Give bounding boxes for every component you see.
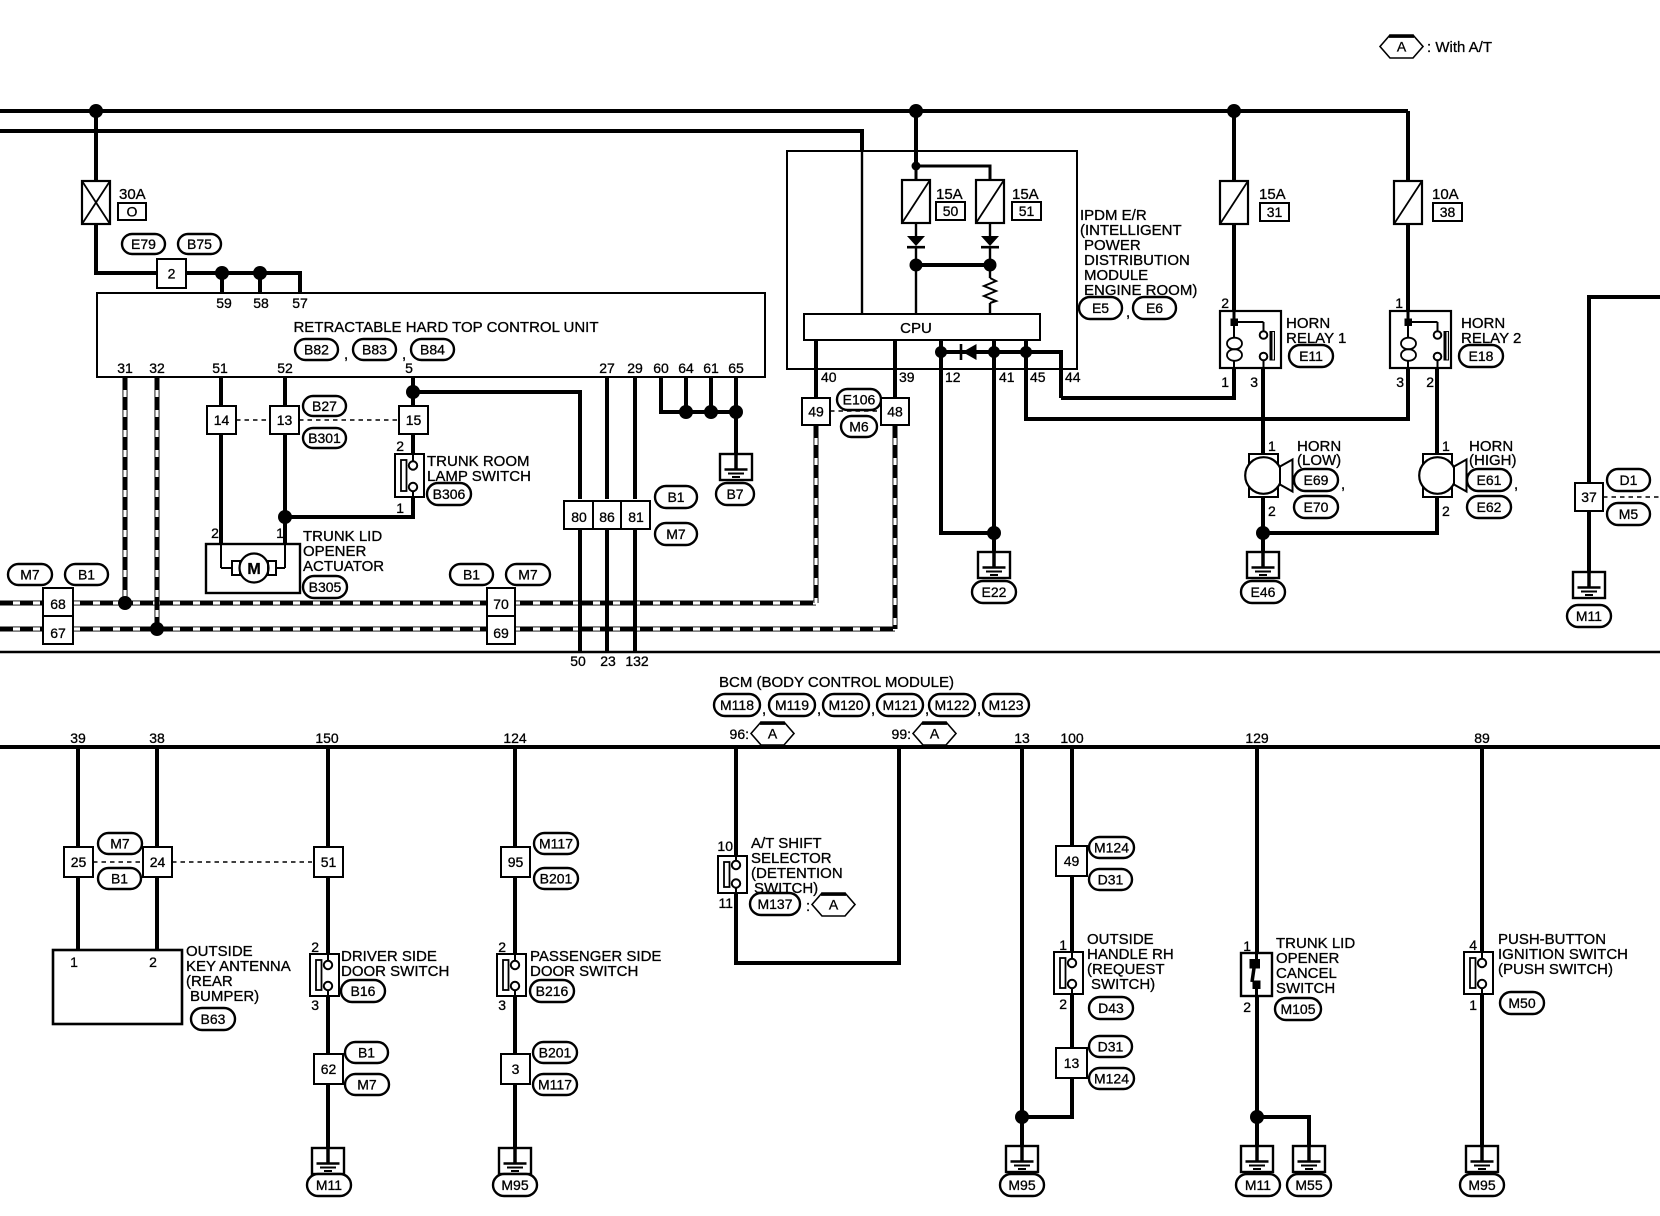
connector B75 xyxy=(178,234,221,254)
node junction pin45 xyxy=(1020,346,1032,358)
section separator line xyxy=(0,651,1660,653)
wire shielded pin 40 to box49 handled above xyxy=(814,425,819,603)
svg-text:59: 59 xyxy=(216,295,232,311)
svg-text:150: 150 xyxy=(315,730,339,746)
wire diode row xyxy=(941,350,1026,354)
wire horn low to ground E46 xyxy=(1261,497,1265,552)
connector M7 right of 81 xyxy=(655,523,697,545)
wire cpu pin 39 xyxy=(895,340,915,398)
diode D under fuse 51 xyxy=(981,236,999,247)
svg-text:CPU: CPU xyxy=(900,320,932,337)
wire BCM pin 38 xyxy=(155,748,159,950)
svg-text:M118: M118 xyxy=(720,697,754,713)
svg-text:39: 39 xyxy=(70,730,86,746)
svg-text:67: 67 xyxy=(50,625,66,641)
svg-text:2: 2 xyxy=(498,939,506,955)
svg-text:10A: 10A xyxy=(1432,186,1459,203)
wire fuse 50 to diode xyxy=(915,223,917,236)
wire 37 to ground M11 xyxy=(1587,511,1591,572)
wire detention switch to pin 99 xyxy=(736,748,899,963)
wire BCM pin 129 xyxy=(1255,748,1259,953)
svg-text:M11: M11 xyxy=(1245,1177,1271,1193)
wire cpu pin 45 xyxy=(1026,340,1046,385)
svg-text:27: 27 xyxy=(599,360,615,376)
connector B301 xyxy=(303,428,346,448)
connector M124 lower xyxy=(1089,1068,1134,1089)
svg-text:B16: B16 xyxy=(351,983,376,999)
connector D31 upper xyxy=(1089,869,1132,890)
wire pin 52 to actuator xyxy=(283,377,287,544)
svg-text:60: 60 xyxy=(653,360,669,376)
svg-text:3: 3 xyxy=(1396,374,1404,390)
svg-text:A: A xyxy=(1397,39,1407,55)
svg-text:D43: D43 xyxy=(1098,1000,1124,1016)
connector B1 door xyxy=(345,1042,388,1063)
wire bus1 to fuse 50 xyxy=(914,111,918,181)
svg-text:39: 39 xyxy=(899,369,915,385)
wire fuse 30A to connector 2 xyxy=(96,223,157,273)
connector M122 xyxy=(929,694,981,718)
connector M121 xyxy=(877,694,929,718)
svg-text:E6: E6 xyxy=(1146,300,1163,316)
svg-text:B1: B1 xyxy=(78,567,95,583)
svg-text:RETRACTABLE HARD TOP CONTROL U: RETRACTABLE HARD TOP CONTROL UNIT xyxy=(293,319,598,336)
IPDM label text xyxy=(1080,207,1197,299)
connector B7 xyxy=(716,483,754,505)
connector M137 xyxy=(750,893,810,915)
svg-text:13: 13 xyxy=(1014,730,1030,746)
svg-text:E106: E106 xyxy=(843,392,876,408)
svg-text:1: 1 xyxy=(1395,295,1403,311)
connector box 80 86 81 xyxy=(564,501,650,529)
connector D1 xyxy=(1607,469,1650,491)
horn high E61 E62 xyxy=(1419,438,1516,519)
wire lamp switch to junction xyxy=(285,497,413,517)
wire BCM pin 124 xyxy=(513,748,517,954)
svg-text:M124: M124 xyxy=(1094,840,1129,856)
node junction on bus1 at fuse 31 xyxy=(1227,104,1241,118)
svg-text:B1: B1 xyxy=(111,871,128,887)
wire dashed 25-24 xyxy=(93,861,143,863)
connector M11 right xyxy=(1567,605,1611,627)
wire pin 31 shielded xyxy=(123,377,128,603)
svg-text:B7: B7 xyxy=(726,486,743,502)
wire pin 5 down xyxy=(411,377,415,454)
svg-text:B82: B82 xyxy=(304,342,329,358)
node junction fuse branch xyxy=(912,162,921,171)
wire dashed 14-13 xyxy=(236,419,270,421)
wire pin 41 to ground E22 xyxy=(992,352,996,552)
svg-text:89: 89 xyxy=(1474,730,1490,746)
svg-text:124: 124 xyxy=(503,730,527,746)
svg-text:A: A xyxy=(829,897,839,913)
svg-text:,: , xyxy=(817,701,821,718)
connector box 48 xyxy=(881,398,909,425)
hexagon A at M137 xyxy=(812,893,855,916)
fuse 15A 50 xyxy=(902,180,965,223)
node junction pin41 xyxy=(988,346,1000,358)
svg-text:M50: M50 xyxy=(1508,995,1535,1011)
svg-text:48: 48 xyxy=(887,404,903,420)
svg-text:B201: B201 xyxy=(539,1045,572,1061)
svg-text:2: 2 xyxy=(1442,503,1450,519)
connector M11 cancel xyxy=(1236,1174,1280,1196)
svg-text:64: 64 xyxy=(678,360,694,376)
ground M95 push xyxy=(1466,1146,1498,1172)
svg-text:1: 1 xyxy=(1469,997,1477,1013)
connector B201 lower xyxy=(533,1042,577,1063)
svg-text:13: 13 xyxy=(1064,1055,1080,1071)
wire BCM pin 13 to ground xyxy=(1020,748,1024,1146)
wire dashed 49-48 xyxy=(830,410,882,412)
wire pin 44 drop xyxy=(1026,352,1081,398)
svg-text:12: 12 xyxy=(945,369,961,385)
IPDM E/R box xyxy=(787,151,1077,369)
connector box 13 handle xyxy=(1056,1048,1087,1078)
wire pin5 branch to connector 80 xyxy=(413,392,580,499)
node junction at E22 xyxy=(987,526,1001,540)
svg-text:2: 2 xyxy=(149,954,157,970)
connector M7 door xyxy=(345,1074,389,1095)
svg-text:69: 69 xyxy=(493,625,509,641)
wire cpu pin 40 xyxy=(816,340,837,398)
wire cpu pin 12 xyxy=(939,340,943,352)
svg-text:1: 1 xyxy=(1442,438,1450,454)
svg-text:14: 14 xyxy=(214,412,230,428)
svg-text:ACTUATOR: ACTUATOR xyxy=(303,558,384,575)
connector M120 xyxy=(823,694,875,718)
connector box 14 xyxy=(207,406,236,434)
wire relay1 pin3 to horn low xyxy=(1261,368,1265,454)
svg-text:50: 50 xyxy=(570,653,586,669)
svg-text:2: 2 xyxy=(168,266,176,282)
svg-text:32: 32 xyxy=(149,360,165,376)
fuse 15A 51 xyxy=(976,180,1041,223)
svg-text:M11: M11 xyxy=(1576,608,1602,624)
connector box 25 xyxy=(64,847,93,877)
svg-text:B1: B1 xyxy=(358,1045,375,1061)
svg-text:E46: E46 xyxy=(1251,584,1276,600)
connector box 3 xyxy=(501,1054,530,1084)
svg-text:B27: B27 xyxy=(312,398,337,414)
wire bus1 corner to fuse 38 xyxy=(1406,111,1410,181)
svg-text:1: 1 xyxy=(1268,438,1276,454)
labels 50 23 132 xyxy=(570,653,649,669)
svg-text:30A: 30A xyxy=(119,186,146,203)
wire relay2 pin2 to horn high xyxy=(1435,368,1439,454)
node junction under fuse 51 xyxy=(984,259,997,272)
legend hexagon A : With A/T xyxy=(1380,35,1492,58)
svg-text:1: 1 xyxy=(276,525,284,541)
svg-text:(LOW): (LOW) xyxy=(1297,452,1341,469)
svg-text:M11: M11 xyxy=(316,1177,342,1193)
connector B201 pass xyxy=(534,868,578,889)
IPDM CPU box xyxy=(804,314,1040,340)
svg-text:M7: M7 xyxy=(357,1077,377,1093)
svg-text:15: 15 xyxy=(406,412,422,428)
svg-text:23: 23 xyxy=(600,653,616,669)
svg-text:SWITCH: SWITCH xyxy=(1276,980,1335,997)
svg-text:M55: M55 xyxy=(1295,1177,1322,1193)
wire pin 60 to ground bus xyxy=(661,377,736,412)
connector E79 xyxy=(122,234,165,254)
svg-text:B216: B216 xyxy=(536,983,569,999)
svg-text:E69: E69 xyxy=(1304,472,1329,488)
wire cpu pin 41 xyxy=(994,340,1015,385)
svg-text:1: 1 xyxy=(1221,374,1229,390)
resistor R internal xyxy=(984,278,996,303)
svg-text:3: 3 xyxy=(311,997,319,1013)
wire shielded bus upper 68-70 xyxy=(0,601,816,606)
svg-text:2: 2 xyxy=(1426,374,1434,390)
svg-text:(PUSH SWITCH): (PUSH SWITCH) xyxy=(1498,961,1613,978)
connector M5 xyxy=(1607,503,1650,525)
ground M11 cancel xyxy=(1241,1146,1273,1172)
connector B305 xyxy=(303,576,347,598)
connector E6 xyxy=(1133,297,1176,319)
wire shielded bus lower 67-69 xyxy=(0,627,895,632)
svg-text:O: O xyxy=(127,204,138,220)
wire right edge to connector 37 xyxy=(1589,297,1660,483)
connector box 13 xyxy=(270,406,299,434)
svg-text:1: 1 xyxy=(396,500,404,516)
node junction pin31 bus xyxy=(118,596,132,610)
connector B27 xyxy=(303,396,346,416)
svg-text:DOOR SWITCH: DOOR SWITCH xyxy=(530,963,638,980)
svg-text:E18: E18 xyxy=(1469,348,1494,364)
connector E46 xyxy=(1241,581,1285,603)
svg-text:5: 5 xyxy=(405,360,413,376)
connector M118 xyxy=(714,694,766,718)
connector M117 lower xyxy=(533,1074,577,1095)
node junction on bus1 at fuse 30A xyxy=(89,104,103,118)
BCM bus line xyxy=(0,745,1660,749)
trunk room lamp switch B306 xyxy=(395,438,531,516)
svg-text:57: 57 xyxy=(292,295,308,311)
connector E61 xyxy=(1467,469,1518,493)
fuse 15A 31 xyxy=(1220,181,1289,224)
svg-text:95: 95 xyxy=(508,854,524,870)
connector box 37 D1 M5 xyxy=(1575,483,1603,511)
svg-text:15A: 15A xyxy=(1259,186,1286,203)
svg-text:2: 2 xyxy=(311,939,319,955)
BCM pin labels xyxy=(70,726,1490,746)
fuse 30A O xyxy=(82,181,146,224)
connector M55 xyxy=(1287,1174,1331,1196)
svg-text:2: 2 xyxy=(211,525,219,541)
svg-text:50: 50 xyxy=(943,203,959,219)
svg-text:E70: E70 xyxy=(1304,499,1329,515)
connector B63 xyxy=(191,1008,235,1030)
connector M50 xyxy=(1500,992,1544,1014)
node junction pin 58 xyxy=(253,266,267,293)
wire request switch to 13 box xyxy=(1070,994,1074,1048)
connector M117 pass xyxy=(534,833,578,854)
ground E46 xyxy=(1247,552,1279,578)
connector D43 xyxy=(1089,997,1133,1019)
wire BCM pin 89 xyxy=(1480,748,1484,952)
wire dashed 24-51 xyxy=(172,861,312,863)
svg-text:13: 13 xyxy=(277,412,293,428)
relay1 bottom pin labels xyxy=(1221,374,1258,390)
connector box 24 xyxy=(143,847,172,877)
wire cancel switch to grounds xyxy=(1255,996,1259,1146)
wire branch to M55 xyxy=(1257,1117,1309,1146)
svg-text:M7: M7 xyxy=(666,526,686,542)
wire pass switch to 3 xyxy=(513,996,517,1054)
svg-text:51: 51 xyxy=(1019,203,1035,219)
connector box 2 xyxy=(157,259,186,288)
svg-text:51: 51 xyxy=(321,854,337,870)
svg-text:SWITCH): SWITCH) xyxy=(1091,976,1155,993)
svg-text:M137: M137 xyxy=(757,896,792,912)
wire bus1 to fuse 30A xyxy=(94,111,98,181)
connector M6 xyxy=(841,416,877,437)
connector E106 xyxy=(837,389,881,410)
control unit bottom pin labels xyxy=(117,360,744,376)
svg-text:99:: 99: xyxy=(892,726,911,742)
svg-text:M121: M121 xyxy=(882,697,917,713)
connector M11 driver xyxy=(307,1174,351,1196)
diode D under fuse 50 xyxy=(907,236,925,247)
svg-text:2: 2 xyxy=(396,438,404,454)
outside handle RH request switch D43 xyxy=(1054,931,1174,1012)
svg-text:4: 4 xyxy=(1469,937,1477,953)
connector B16 xyxy=(341,980,385,1002)
svg-text:,: , xyxy=(1514,476,1518,493)
svg-text:,: , xyxy=(1126,304,1130,321)
svg-text:M122: M122 xyxy=(934,697,969,713)
svg-text:80: 80 xyxy=(571,509,587,525)
svg-text:1: 1 xyxy=(1059,937,1067,953)
ground M95 passenger xyxy=(499,1148,531,1174)
hexagon A at 99 xyxy=(913,722,956,745)
connector E18 xyxy=(1459,345,1503,367)
wire power bus 2 xyxy=(0,131,862,314)
svg-text:M95: M95 xyxy=(1468,1177,1495,1193)
svg-text:,: , xyxy=(344,346,348,363)
horn relay 2 E18 xyxy=(1390,311,1521,368)
connector M95 passenger xyxy=(493,1174,537,1196)
svg-text:29: 29 xyxy=(627,360,643,376)
svg-text:M119: M119 xyxy=(775,697,809,713)
connector B84 xyxy=(402,339,454,363)
connector M119 xyxy=(769,694,821,718)
BCM title xyxy=(719,674,954,691)
svg-text:31: 31 xyxy=(117,360,133,376)
wire connector 2 to pin 57 xyxy=(186,273,300,293)
wire door switch to 62 xyxy=(326,996,330,1054)
svg-text:65: 65 xyxy=(728,360,744,376)
driver side door switch B16 xyxy=(310,939,449,1013)
connector box 95 xyxy=(501,847,530,877)
svg-text:B301: B301 xyxy=(308,430,341,446)
svg-text:41: 41 xyxy=(999,369,1015,385)
svg-text:3: 3 xyxy=(512,1061,520,1077)
svg-text:E61: E61 xyxy=(1477,472,1502,488)
connector B1 antenna xyxy=(98,868,141,889)
connector B1 left xyxy=(65,564,108,585)
wire power bus 1 xyxy=(0,109,1408,113)
connector E70 xyxy=(1294,496,1338,518)
node junction pin32 bus xyxy=(150,622,164,636)
wire pin 65 stub xyxy=(729,377,743,419)
relay2 bottom pin labels xyxy=(1396,374,1434,390)
ground M11 driver xyxy=(312,1148,344,1174)
svg-text:D31: D31 xyxy=(1098,1039,1124,1055)
svg-text:D31: D31 xyxy=(1098,872,1124,888)
svg-text:61: 61 xyxy=(703,360,719,376)
connector box 51 xyxy=(314,847,343,877)
wire horn high to junction xyxy=(1263,497,1437,533)
wire pin44 to relay1 pin1 xyxy=(1061,368,1234,398)
connector B306 xyxy=(427,483,471,505)
hexagon A at 96 xyxy=(751,722,794,745)
connector B82 xyxy=(295,339,338,360)
svg-text:31: 31 xyxy=(1267,204,1283,220)
svg-text:3: 3 xyxy=(498,997,506,1013)
svg-text:49: 49 xyxy=(1064,853,1080,869)
svg-text:M124: M124 xyxy=(1094,1071,1129,1087)
wire 3 to ground M95 xyxy=(513,1084,517,1148)
svg-text:B63: B63 xyxy=(201,1011,226,1027)
svg-text:M6: M6 xyxy=(849,419,869,435)
node junction lamp switch feed xyxy=(278,510,292,524)
svg-text:D1: D1 xyxy=(1620,472,1638,488)
svg-text::: : xyxy=(806,898,810,915)
wire diode to cpu pin xyxy=(915,248,917,314)
fuse 10A 38 xyxy=(1394,181,1462,224)
wire BCM pin 150 xyxy=(326,748,330,954)
wire pin 12 to ground link xyxy=(941,352,994,533)
svg-text:E22: E22 xyxy=(982,584,1007,600)
svg-text:E11: E11 xyxy=(1299,348,1323,364)
node junction pin12 xyxy=(935,346,947,358)
svg-text:70: 70 xyxy=(493,596,509,612)
connector E11 xyxy=(1289,345,1333,367)
svg-text:1: 1 xyxy=(70,954,78,970)
connector B216 xyxy=(530,980,574,1002)
wire pin 61 stub xyxy=(704,377,718,419)
node junction cancel grounds xyxy=(1250,1110,1264,1124)
ground B7 xyxy=(720,454,752,480)
wire diode 51 down xyxy=(989,248,991,278)
svg-text:(HIGH): (HIGH) xyxy=(1469,452,1517,469)
connector box 15 xyxy=(399,406,428,434)
wire BCM pin 39 xyxy=(76,748,80,950)
svg-text:B75: B75 xyxy=(187,236,212,252)
wire junction link xyxy=(916,263,990,267)
connector box 49 handle xyxy=(1056,846,1087,876)
svg-text:A: A xyxy=(768,726,778,742)
svg-text:25: 25 xyxy=(71,854,87,870)
wire connector 80 to BCM 50 xyxy=(578,527,582,651)
svg-text:132: 132 xyxy=(625,653,649,669)
svg-text:15A: 15A xyxy=(936,186,963,203)
horn low E69 E70 xyxy=(1245,438,1341,519)
node junction under fuse 50 xyxy=(910,259,923,272)
svg-text:2: 2 xyxy=(1243,999,1251,1015)
svg-text:38: 38 xyxy=(149,730,165,746)
connector M123 xyxy=(983,694,1029,716)
connector box 68 67 xyxy=(43,588,73,644)
svg-text:68: 68 xyxy=(50,596,66,612)
svg-text:45: 45 xyxy=(1030,369,1046,385)
svg-text:M5: M5 xyxy=(1619,506,1639,522)
node junction horn grounds xyxy=(1256,526,1270,540)
connector M7 antenna xyxy=(98,833,142,854)
svg-text:51: 51 xyxy=(212,360,228,376)
